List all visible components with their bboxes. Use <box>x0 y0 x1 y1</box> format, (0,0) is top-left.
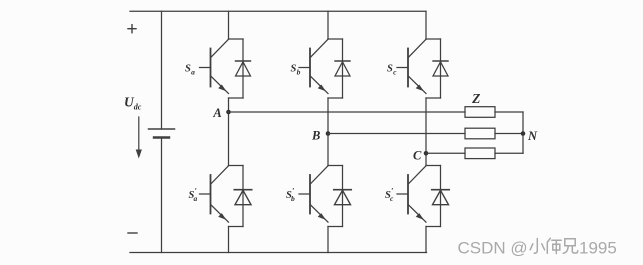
resistor Za (load impedance, phase A) <box>465 107 495 118</box>
wire: diode D3 branch bottom <box>426 97 441 99</box>
svg-text:C: C <box>413 148 422 162</box>
wire: leg b top drop from positive bus <box>327 11 329 39</box>
wire: diode D4 branch bottom <box>229 226 244 228</box>
svg-text:N: N <box>527 129 538 143</box>
label + (positive terminal) <box>128 25 136 33</box>
wire: positive DC bus (top rail) <box>130 10 426 12</box>
wire: diode D1 branch bottom <box>229 97 244 99</box>
diode D2 (upper freewheeling diode) <box>335 61 350 76</box>
label - (negative terminal) <box>128 232 137 234</box>
node B (phase b output junction) <box>326 131 331 136</box>
watermark CSDN @xiaoshixiong1995 <box>458 238 619 258</box>
svg-text:1995: 1995 <box>579 238 617 257</box>
wire: leg b mid segment (node B to lower device) <box>327 134 329 166</box>
wire: phase B line to load <box>328 133 465 135</box>
svg-text:Z: Z <box>471 91 480 106</box>
wire: phase C line from load to neutral bus <box>495 152 523 154</box>
transistor Sb' (lower IGBT Q5) <box>299 166 328 222</box>
wire: phase A line to load <box>229 111 466 113</box>
wire: phase A line from load to neutral bus <box>495 111 523 113</box>
wire: diode D2 branch right segment <box>342 39 344 98</box>
transistor Sc' (lower IGBT Q6) <box>397 166 426 222</box>
wire: diode D6 branch bottom <box>426 226 441 228</box>
diode D3 (upper freewheeling diode) <box>433 61 448 76</box>
wire: diode D5 branch top <box>328 165 343 167</box>
wire: neutral connector vertical <box>522 112 524 153</box>
wire: leg c mid segment (upper device to node C) <box>425 98 427 153</box>
wire: leg a mid segment (node A to lower device) <box>228 112 230 166</box>
wire: diode D2 branch bottom <box>328 97 343 99</box>
wire: battery branch upper segment <box>161 11 163 129</box>
wire: diode D6 branch right segment <box>440 166 442 227</box>
wire: diode D5 branch bottom <box>328 226 343 228</box>
diode D6 (lower freewheeling diode) <box>432 190 449 205</box>
transistor Sa' (lower IGBT Q4) <box>200 166 229 222</box>
wire: diode D1 branch top <box>229 38 244 40</box>
wire: diode D4 branch top <box>229 165 244 167</box>
wire: diode D3 branch top <box>426 38 441 40</box>
node C (phase c output junction) <box>424 151 429 156</box>
wire: leg b bottom segment to negative bus <box>327 227 329 253</box>
wire: leg c top drop from positive bus <box>425 11 427 39</box>
wire: leg a top drop from positive bus <box>228 11 230 39</box>
svg-text:CSDN @: CSDN @ <box>458 238 528 257</box>
wire: diode D4 branch right segment <box>242 166 244 227</box>
node A (phase a output junction) <box>226 110 231 115</box>
transistor Sc (upper IGBT Q3) <box>397 39 426 93</box>
resistor Zb (load impedance, phase B) <box>465 128 495 139</box>
wire: leg c bottom segment to negative bus <box>425 227 427 253</box>
wire: diode D5 branch right segment <box>342 166 344 227</box>
battery (DC source) negative plate <box>154 136 169 138</box>
wire: diode D2 branch top <box>328 38 343 40</box>
transistor Sb (upper IGBT Q2) <box>299 39 328 93</box>
svg-text:A: A <box>212 106 221 120</box>
wire: leg b mid segment (upper device to node B) <box>327 98 329 134</box>
battery (DC source) positive plate <box>149 128 175 130</box>
wire: diode D1 branch right segment <box>242 39 244 98</box>
wire: leg a mid segment (upper device to node A) <box>228 98 230 112</box>
resistor Zc (load impedance, phase C) <box>465 148 495 159</box>
wire: diode D6 branch top <box>426 165 441 167</box>
wire: diode D3 branch right segment <box>440 39 442 98</box>
diode D1 (upper freewheeling diode) <box>236 61 251 76</box>
wire: phase B line from load to neutral bus <box>495 133 523 135</box>
arrow: Udc reference direction <box>138 117 140 153</box>
wire: leg a bottom segment to negative bus <box>228 227 230 253</box>
diode D4 (lower freewheeling diode) <box>234 190 251 205</box>
transistor Sa (upper IGBT Q1) <box>200 39 229 93</box>
wire: battery branch lower segment <box>161 138 163 253</box>
node N (load neutral) <box>521 131 526 136</box>
wire: negative DC bus (bottom rail) <box>130 252 427 254</box>
wire: leg c mid segment (node C to lower device) <box>425 153 427 165</box>
wire: phase C line to load <box>426 152 465 154</box>
svg-text:B: B <box>311 129 320 143</box>
diode D5 (lower freewheeling diode) <box>334 190 351 205</box>
